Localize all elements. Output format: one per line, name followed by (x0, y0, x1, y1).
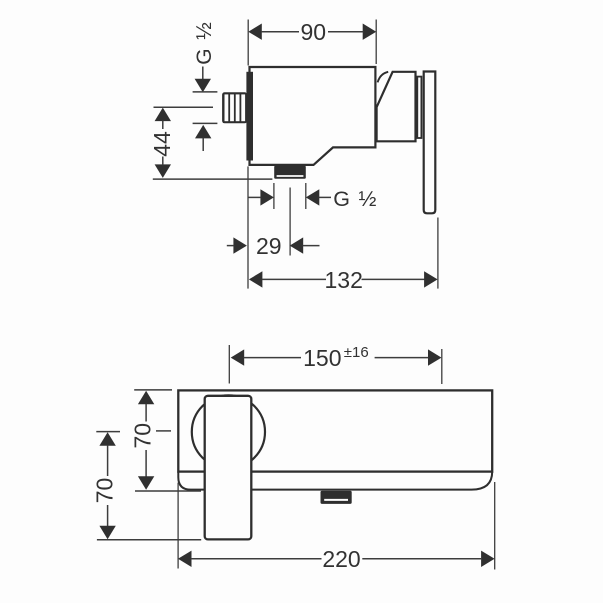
svg-text:½: ½ (193, 22, 216, 40)
svg-text:132: 132 (325, 267, 363, 293)
svg-text:±16: ±16 (344, 344, 369, 361)
svg-text:G: G (193, 48, 216, 64)
svg-text:29: 29 (256, 233, 282, 259)
svg-text:150: 150 (303, 345, 341, 371)
svg-text:G: G (333, 187, 350, 211)
svg-text:70: 70 (130, 423, 156, 449)
svg-text:70: 70 (92, 478, 118, 504)
svg-text:½: ½ (359, 187, 377, 211)
svg-text:44: 44 (149, 131, 175, 157)
svg-text:220: 220 (322, 546, 360, 572)
svg-text:90: 90 (301, 19, 327, 45)
